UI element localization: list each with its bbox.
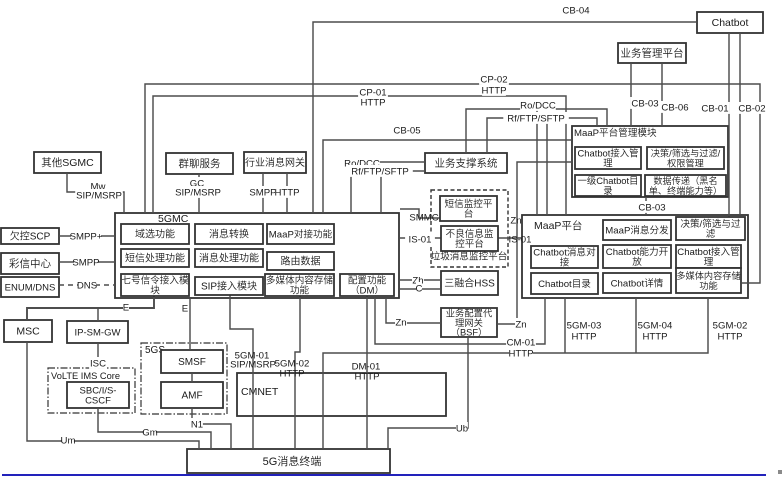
box IP-SM-GW <box>67 321 128 343</box>
wire Ro/DCC branch to MaaP平台 <box>536 109 538 215</box>
svg-text:HTTP: HTTP <box>642 332 667 343</box>
wire DNS ENUM-5GMC <box>59 284 115 286</box>
svg-text:短信处理功能: 短信处理功能 <box>125 252 185 265</box>
box MaaP平台管理模块 <box>572 126 728 197</box>
svg-text:HTTP: HTTP <box>717 332 742 343</box>
svg-text:AMF: AMF <box>181 391 202 402</box>
label SMMC <box>409 213 438 224</box>
label ISC <box>89 357 107 370</box>
svg-text:SIP/MSRP: SIP/MSRP <box>76 191 122 202</box>
svg-text:Chatbot详情: Chatbot详情 <box>611 278 664 290</box>
box 三融合HSS <box>441 271 498 295</box>
label CP-02 HTTP <box>481 84 506 97</box>
svg-text:CB-04: CB-04 <box>562 6 590 17</box>
label Mw <box>91 180 106 193</box>
wire CM-01 5GMC-MaaP平台 <box>375 298 545 344</box>
svg-text:SMPP: SMPP <box>249 188 276 199</box>
box 决策筛选与过滤(MaaP) <box>676 217 745 240</box>
svg-text:理: 理 <box>704 257 714 268</box>
svg-text:业务支撑系统: 业务支撑系统 <box>435 157 498 170</box>
box 彩信中心 <box>1 253 59 274</box>
wire Mw 其他SGMC-5GMC <box>67 173 124 213</box>
label HTTP 行业 <box>274 186 299 199</box>
wire N1 AMF-终端 <box>192 408 231 449</box>
wire Ub BSF-终端 <box>388 337 468 449</box>
box Chatbot接入管理(模块) <box>575 147 641 169</box>
box 5G消息终端 <box>187 449 390 473</box>
svg-text:业务管理平台: 业务管理平台 <box>621 47 684 60</box>
wire SMPP 彩信中心-5GMC <box>59 261 115 263</box>
label Rf/FTP/SFTP lower <box>347 165 413 178</box>
box 域选功能 <box>121 224 189 244</box>
svg-text:IS-01: IS-01 <box>409 235 432 246</box>
label 5GM-04 <box>637 319 673 332</box>
box 行业消息网关 <box>244 152 306 173</box>
box 多媒体内容存储功能(MaaP) <box>676 268 741 293</box>
svg-text:IP-SM-GW: IP-SM-GW <box>75 328 121 339</box>
wire GC 群聊服务-5GMC <box>198 174 200 213</box>
svg-text:SIP接入模块: SIP接入模块 <box>201 280 257 293</box>
svg-text:CMNET: CMNET <box>241 386 279 398</box>
svg-text:MSC: MSC <box>16 326 40 338</box>
svg-text:CSCF: CSCF <box>85 396 111 407</box>
svg-text:单、终端能力等）: 单、终端能力等） <box>649 185 723 196</box>
box 数据传递黑名单终端能力等 <box>645 175 726 196</box>
svg-text:放: 放 <box>632 256 642 268</box>
box VoLTE IMS Core(dashdot) <box>48 368 135 413</box>
svg-text:块: 块 <box>150 285 160 297</box>
label CB-02 <box>737 102 767 115</box>
wire 5GM-03 drop <box>564 298 566 353</box>
box 消息转换 <box>195 224 263 244</box>
svg-text:HTTP: HTTP <box>508 349 533 360</box>
svg-text:SMMC: SMMC <box>409 213 438 224</box>
svg-text:三融合HSS: 三融合HSS <box>444 277 495 290</box>
svg-text:CP-02: CP-02 <box>480 75 507 86</box>
box MSC <box>4 320 52 342</box>
box SMSF <box>161 350 223 373</box>
label 5GM-02 left HTTP <box>279 369 304 380</box>
label CB-03 lower <box>637 201 667 214</box>
svg-text:Zn: Zn <box>510 216 521 227</box>
svg-text:滤: 滤 <box>706 228 716 240</box>
label Zn BSF-right <box>515 318 527 331</box>
svg-text:接: 接 <box>560 257 570 269</box>
svg-text:SMPP: SMPP <box>72 258 99 269</box>
label Gm <box>142 426 157 439</box>
svg-text:5GM-02: 5GM-02 <box>713 321 748 332</box>
box 5GMC <box>115 213 399 298</box>
label IS-01 left <box>405 233 435 246</box>
box 群聊服务 <box>166 153 233 174</box>
box 路由数据 <box>267 252 334 270</box>
svg-text:C: C <box>416 284 423 295</box>
box Chatbot目录 <box>531 273 598 294</box>
label 5GM-01 <box>235 351 270 362</box>
wire CB-06 业务管理平台-管理模块 <box>661 63 663 126</box>
box MaaP对接功能 <box>267 224 334 244</box>
wire Gm SBC-终端 <box>98 408 211 449</box>
svg-text:决策/筛选与过滤/: 决策/筛选与过滤/ <box>651 148 721 159</box>
label N1 <box>191 418 203 431</box>
label CB-03 <box>630 97 660 110</box>
wire Zn BSF-管理模块 <box>497 162 572 324</box>
wire CP-02 5GMC-多媒体存储 <box>145 84 760 283</box>
wire 5GM-04 drop <box>635 298 637 353</box>
wire 5GM bus MaaP平台-终端 <box>323 298 708 449</box>
svg-text:CB-05: CB-05 <box>393 126 420 137</box>
box 短信处理功能 <box>121 249 189 267</box>
label DM-01 HTTP <box>354 372 379 383</box>
wire Ro/DCC 业务支撑-5GMC <box>351 162 425 213</box>
label GC <box>190 177 204 190</box>
box Chatbot接入管理(MaaP) <box>676 245 741 268</box>
wire CB-01 Chatbot-决策筛选 <box>728 33 730 218</box>
svg-text:HTTP: HTTP <box>481 86 506 97</box>
svg-text:MaaP平台管理模块: MaaP平台管理模块 <box>574 127 657 139</box>
label E left <box>123 301 129 314</box>
wire 5GM-02 多媒体存储-终端 <box>295 296 300 449</box>
box 决策筛选与过滤权限管理 <box>647 147 724 169</box>
box 5GS(dashdot) <box>141 343 227 414</box>
label 5GM-01 SIP/MSRP <box>230 360 276 371</box>
label 5GM-03 <box>566 319 602 332</box>
wire Zh 5GMC-三融合HSS <box>400 279 441 281</box>
label 5GM-02 left <box>275 359 310 370</box>
label SMPP 彩信 <box>72 256 99 269</box>
wire SMPP+ 欠控SCP-5GMC <box>59 235 115 237</box>
wire Rf/FTP/SFTP 业务支撑-5GMC <box>381 171 425 213</box>
box 业务配置代理网关BSF <box>441 308 497 338</box>
label CM-01 <box>506 336 536 349</box>
box 消息处理功能 <box>195 249 263 267</box>
svg-text:彩信中心: 彩信中心 <box>9 257 51 270</box>
wire HTTP 行业网关-5GMC <box>286 173 288 213</box>
svg-text:MaaP消息分发: MaaP消息分发 <box>605 225 669 237</box>
svg-text:CB-01: CB-01 <box>701 104 728 115</box>
svg-text:CB-03: CB-03 <box>631 99 658 110</box>
box 配置功能DM <box>340 274 394 297</box>
svg-text:N1: N1 <box>191 420 203 431</box>
svg-text:ENUM/DNS: ENUM/DNS <box>5 283 56 294</box>
label CP-01 HTTP <box>360 96 385 109</box>
wire E 七号信令-MSC/IP-SM-GW <box>27 296 154 320</box>
svg-text:Chatbot目录: Chatbot目录 <box>538 279 591 290</box>
svg-text:Um: Um <box>61 436 76 447</box>
box ENUM/DNS <box>1 277 59 297</box>
svg-text:CM-01: CM-01 <box>507 338 536 349</box>
wire CB-03 管理模块-MaaP平台 <box>645 197 647 215</box>
wire ISC IP-SM-GW-VoLTE <box>97 343 99 368</box>
svg-text:CB-06: CB-06 <box>661 103 688 114</box>
svg-text:（DM）: （DM） <box>350 285 384 297</box>
svg-text:域选功能: 域选功能 <box>135 228 175 241</box>
label DNS <box>77 279 97 292</box>
wire Um MSC-终端 <box>27 342 199 449</box>
wire CB-02 Chatbot-MaaP平台 <box>739 33 741 215</box>
svg-text:HTTP: HTTP <box>279 369 304 380</box>
svg-text:5G消息终端: 5G消息终端 <box>263 454 322 468</box>
label CP-02 <box>479 73 509 86</box>
wire SMSF-AMF <box>191 373 193 382</box>
box 一级Chatbot目录 <box>575 175 641 196</box>
label CP-01 <box>358 86 388 99</box>
svg-text:权限管理: 权限管理 <box>667 158 704 169</box>
wire 5GM-01 SIP接入-终端 <box>230 295 253 449</box>
wire SMMC 5GMC-短信监控平台 <box>400 209 440 218</box>
box 欠控SCP <box>1 228 59 244</box>
svg-text:VoLTE IMS Core: VoLTE IMS Core <box>51 371 120 381</box>
svg-text:理网关: 理网关 <box>455 317 483 328</box>
label Ro/DCC upper <box>520 99 556 112</box>
label DM-01 <box>352 362 381 373</box>
svg-text:多媒体内容存储: 多媒体内容存储 <box>676 270 740 281</box>
box Chatbot <box>697 12 763 33</box>
svg-text:其他SGMC: 其他SGMC <box>41 156 94 169</box>
label 5GM-02 right HTTP <box>717 330 742 343</box>
box 业务支撑系统 <box>425 153 507 173</box>
label Rf/FTP/SFTP upper <box>503 112 569 125</box>
box 短信监控平台 <box>440 196 497 221</box>
svg-text:功能: 功能 <box>290 285 310 297</box>
label GC SIP/MSRP <box>174 186 222 199</box>
label 5GM-02 right <box>712 319 748 332</box>
svg-text:Ub: Ub <box>456 424 468 435</box>
box 不良信息监控平台 <box>441 226 498 251</box>
svg-text:IS-01: IS-01 <box>509 235 532 246</box>
wire IS-01 5GMC-不良信息监控 <box>400 237 441 239</box>
svg-text:Rf/FTP/SFTP: Rf/FTP/SFTP <box>351 167 409 178</box>
svg-text:行业消息网关: 行业消息网关 <box>245 156 305 169</box>
wire CB-05 5GMC-管理模块 <box>323 140 572 213</box>
svg-text:录: 录 <box>603 185 612 196</box>
label Mw SIP/MSRP <box>75 189 123 202</box>
svg-text:SMSF: SMSF <box>178 357 206 368</box>
box 垃圾消息监控平台(dashed) <box>431 190 508 267</box>
svg-text:业务配置代: 业务配置代 <box>446 308 493 319</box>
svg-text:理: 理 <box>603 158 613 169</box>
svg-text:E: E <box>182 304 188 315</box>
svg-text:消息处理功能: 消息处理功能 <box>199 252 259 265</box>
svg-text:Zn: Zn <box>395 318 406 329</box>
svg-text:HTTP: HTTP <box>354 372 379 383</box>
svg-text:MaaP对接功能: MaaP对接功能 <box>269 229 333 241</box>
label CB-05 <box>392 124 422 137</box>
svg-text:MaaP平台: MaaP平台 <box>534 219 582 232</box>
box AMF <box>161 382 223 408</box>
wire Zn 5GMC-BSF <box>386 298 441 323</box>
wire C 5GMC-三融合HSS <box>400 288 441 290</box>
wire CB-04 Chatbot-5GMC <box>313 22 696 213</box>
box Chatbot消息对接 <box>531 246 598 269</box>
blue divider line <box>2 474 766 476</box>
label E right <box>182 302 188 315</box>
box Chatbot能力开放 <box>603 245 671 268</box>
wire Ro/DCC 业务支撑-管理模块 <box>466 109 607 153</box>
wire E branch IP-SM-GW <box>97 308 99 321</box>
label CB-06 <box>660 101 690 114</box>
label SMPP 行业 <box>249 186 276 199</box>
svg-text:SMPP+: SMPP+ <box>70 232 103 243</box>
label Um <box>61 434 76 447</box>
label CB-01 <box>700 102 730 115</box>
box Chatbot详情 <box>603 273 671 293</box>
svg-text:功能: 功能 <box>699 280 717 291</box>
svg-text:CB-02: CB-02 <box>738 104 765 115</box>
wire Rf branch to MaaP平台 <box>546 118 548 215</box>
svg-text:Chatbot: Chatbot <box>712 17 749 29</box>
label Zn left <box>395 316 407 329</box>
box 业务管理平台 <box>618 43 686 63</box>
wire CB-03 业务管理平台-管理模块 <box>630 63 632 126</box>
svg-text:台: 台 <box>464 208 474 220</box>
label CM-01 HTTP <box>508 347 533 360</box>
label 垃圾消息监控平台 <box>431 251 508 263</box>
svg-text:路由数据: 路由数据 <box>281 255 321 268</box>
svg-text:CB-03: CB-03 <box>638 203 665 214</box>
wire SMPP 行业网关-5GMC <box>262 173 264 213</box>
label Ro/DCC lower <box>344 157 380 170</box>
svg-text:SIP/MSRP: SIP/MSRP <box>230 360 276 371</box>
box SBC/I/S-CSCF <box>67 382 129 408</box>
svg-text:Rf/FTP/SFTP: Rf/FTP/SFTP <box>507 114 565 125</box>
svg-text:群聊服务: 群聊服务 <box>179 157 221 170</box>
box 其他SGMC <box>34 152 101 173</box>
svg-text:HTTP: HTTP <box>274 188 299 199</box>
box 七号信令接入模块 <box>121 274 189 297</box>
svg-text:Gm: Gm <box>142 428 157 439</box>
label SMPP+ <box>70 230 103 243</box>
svg-text:Zn: Zn <box>515 320 526 331</box>
box SIP接入模块 <box>195 277 263 295</box>
box CMNET <box>237 373 446 416</box>
label CB-04 <box>561 4 591 17</box>
svg-text:（BSF）: （BSF） <box>451 328 488 338</box>
svg-text:垃圾消息监控平台: 垃圾消息监控平台 <box>431 251 508 263</box>
svg-text:控平台: 控平台 <box>455 238 484 250</box>
box MaaP消息分发 <box>603 220 671 240</box>
svg-text:欠控SCP: 欠控SCP <box>10 230 51 243</box>
svg-text:5GM-03: 5GM-03 <box>567 321 602 332</box>
label Zh <box>412 274 424 287</box>
label C <box>416 282 423 295</box>
svg-text:ISC: ISC <box>90 359 106 370</box>
wire IS-01 不良信息监控-MaaP平台 <box>498 237 522 239</box>
svg-text:HTTP: HTTP <box>571 332 596 343</box>
label 5GM-03 HTTP <box>571 330 596 343</box>
label IS-01 right <box>509 235 532 246</box>
wire E SIP接入-SMSF <box>189 298 191 350</box>
svg-text:HTTP: HTTP <box>360 98 385 109</box>
wire Rf/FTP/SFTP 业务支撑-管理模块 <box>487 118 597 153</box>
svg-text:数据传递（黑名: 数据传递（黑名 <box>653 175 717 186</box>
svg-text:DNS: DNS <box>77 281 97 292</box>
svg-text:E: E <box>123 303 129 314</box>
label Ub <box>456 422 468 435</box>
svg-text:5GM-04: 5GM-04 <box>638 321 673 332</box>
wire DM-01 配置功能-终端 <box>366 296 368 449</box>
right edge mark <box>778 470 782 474</box>
svg-text:消息转换: 消息转换 <box>209 228 249 241</box>
svg-text:SIP/MSRP: SIP/MSRP <box>175 188 221 199</box>
label Zn right-top <box>510 216 521 227</box>
svg-text:Ro/DCC: Ro/DCC <box>520 101 556 112</box>
label 5GM-04 HTTP <box>642 330 667 343</box>
box MaaP平台 <box>522 215 748 298</box>
box 多媒体内容存储功能(5GMC) <box>265 274 334 297</box>
wire CP-01 5GMC-MaaP平台 <box>153 96 566 215</box>
